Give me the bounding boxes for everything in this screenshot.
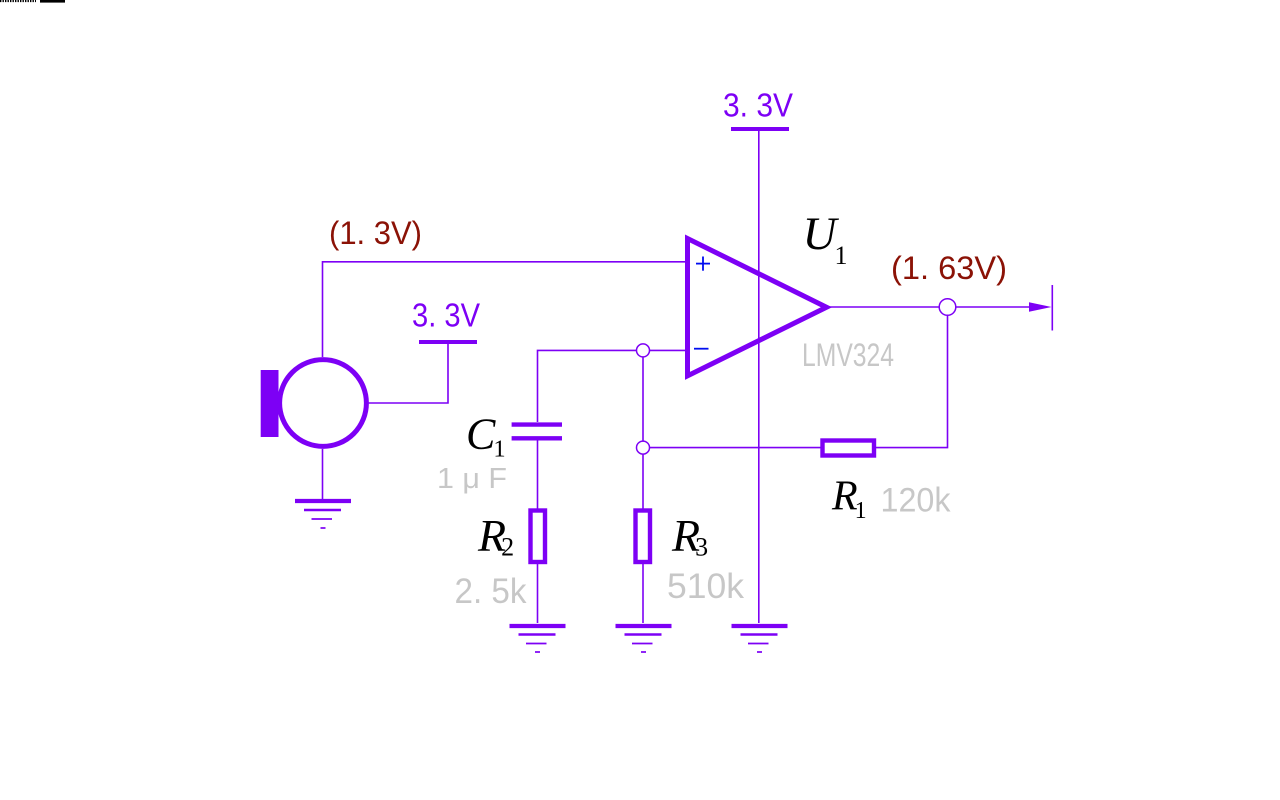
node N3 (output junction) (939, 299, 956, 316)
wire: R2 to ground (537, 563, 539, 623)
power 3.3V (op-amp supply) bar (731, 127, 789, 131)
wire: N3 to output port (956, 306, 1030, 308)
node N1 (inverting input junction) (637, 344, 650, 357)
svg-text:(1. 3V): (1. 3V) (329, 215, 422, 251)
ground (supply rail) (732, 626, 788, 652)
wire: - input net (650, 349, 687, 351)
wire: N2 to R3 (642, 455, 644, 509)
wire: N2 to R1 left (650, 447, 821, 449)
wire: op-amp output (829, 306, 939, 308)
wire: N1 to N2 vertical (642, 357, 644, 441)
ground (mic) (295, 501, 351, 528)
ground (R2) (510, 626, 566, 652)
wire: C1 to R2 (537, 440, 539, 509)
svg-text:3. 3V: 3. 3V (412, 297, 480, 334)
clipped title text remnant (0, 0, 36, 2)
op-amp + input pin mark (696, 257, 710, 271)
svg-text:LMV324: LMV324 (802, 337, 894, 373)
resistor R3 (636, 511, 651, 563)
wire: 3.3V supply rail vertical (758, 131, 760, 623)
clipped title underline bar (40, 0, 65, 3)
node N2 (feedback junction) (637, 441, 650, 454)
ground (R3) (616, 626, 672, 652)
svg-text:510k: 510k (667, 567, 744, 606)
microphone body (280, 360, 367, 447)
wire: R3 to ground (642, 563, 644, 623)
op-amp - input pin mark (694, 348, 709, 350)
microphone electret element (261, 370, 279, 437)
svg-text:3. 3V: 3. 3V (723, 86, 793, 123)
resistor R2 (531, 511, 546, 563)
output port terminal bar (1051, 285, 1053, 331)
wire: mic top to op-amp + input (323, 262, 688, 357)
wire: mic to ground (322, 449, 324, 500)
power 3.3V (mic bias) bar (419, 340, 477, 344)
capacitor C1 plates (512, 425, 562, 439)
wire: mic output to 3.3V bias (369, 344, 448, 403)
wire: N1 to capacitor C1 (538, 350, 637, 422)
wire: R1 right to output node (876, 316, 948, 448)
output port arrow (1029, 302, 1052, 311)
svg-text:(1. 63V): (1. 63V) (891, 250, 1007, 286)
resistor R1 (823, 441, 875, 456)
svg-text:1 μ F: 1 μ F (437, 463, 507, 495)
svg-text:2. 5k: 2. 5k (455, 572, 527, 611)
op-amp U1 triangle (688, 239, 827, 376)
svg-text:120k: 120k (881, 482, 952, 520)
